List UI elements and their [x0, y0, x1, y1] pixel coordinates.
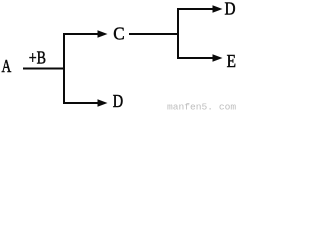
svg-text:C: C	[113, 23, 124, 44]
svg-text:+B: +B	[29, 49, 46, 68]
svg-text:D: D	[113, 90, 124, 111]
svg-text:D: D	[225, 0, 236, 19]
svg-text:E: E	[227, 51, 236, 71]
svg-text:manfen5. com: manfen5. com	[167, 102, 236, 113]
svg-text:A: A	[2, 57, 12, 76]
